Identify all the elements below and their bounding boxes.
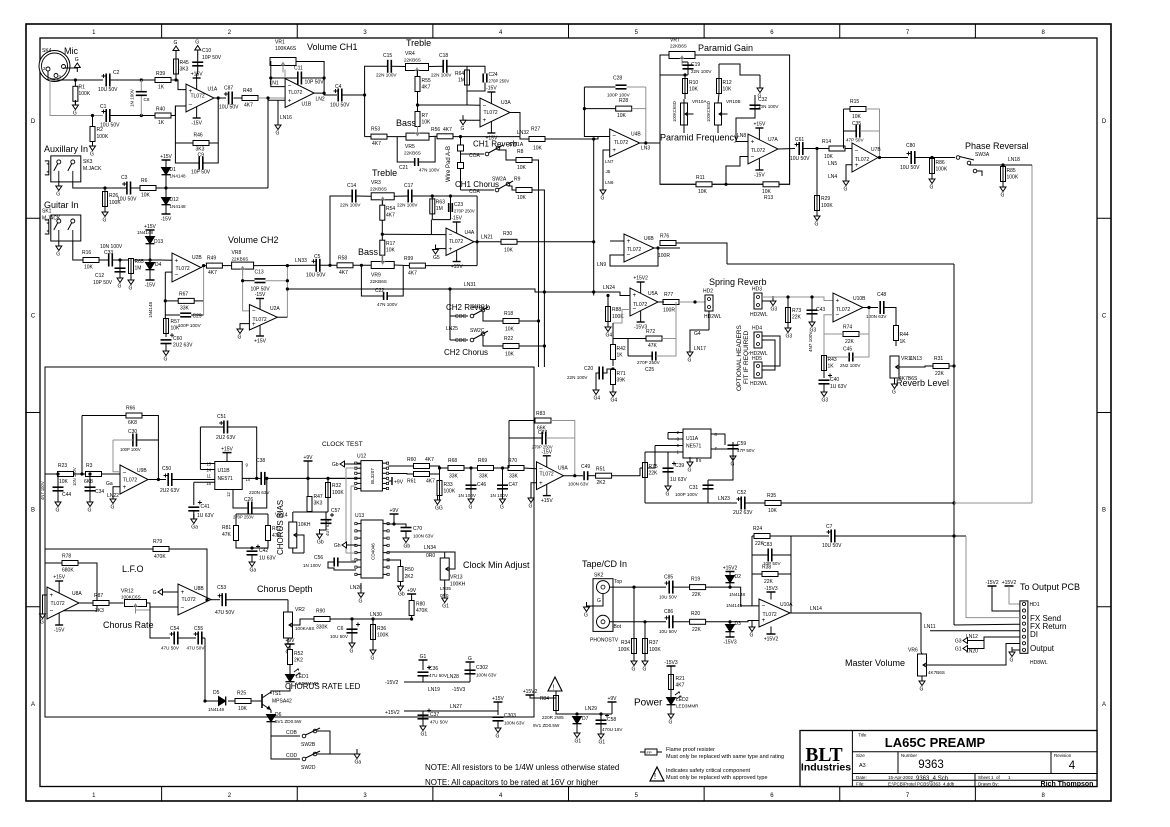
power +15V2 U10A (764, 634, 779, 643)
svg-text:R49: R49 (207, 256, 216, 262)
svg-text:R99: R99 (404, 256, 413, 262)
wire U7B fb right (866, 109, 880, 158)
svg-text:R7: R7 (422, 113, 429, 119)
capacitor C27 (532, 430, 553, 450)
wire U4B R28 r (632, 108, 646, 110)
svg-text:NE571: NE571 (218, 476, 234, 482)
svg-text:G: G (643, 667, 647, 673)
wire U10B minus loop (824, 315, 843, 334)
node d7 n (575, 712, 578, 715)
wire R57 leads (164, 319, 167, 338)
power -15V below D4 (145, 280, 156, 289)
ground G U4B (600, 185, 606, 202)
svg-text:HD5: HD5 (752, 356, 762, 362)
svg-text:G: G (892, 390, 896, 396)
svg-text:SW2C: SW2C (470, 328, 485, 334)
svg-text:R18: R18 (504, 311, 513, 317)
svg-text:C32: C32 (758, 97, 767, 103)
resistor R1 (73, 85, 91, 102)
svg-text:0R0: 0R0 (426, 553, 435, 559)
capacitor C40 (819, 374, 848, 391)
wire R71 bot (612, 385, 614, 393)
svg-text:G: G (40, 620, 44, 626)
svg-text:PHONOSTV: PHONOSTV (590, 638, 619, 644)
svg-text:2N2 100V: 2N2 100V (840, 363, 861, 368)
wire R60 out (430, 466, 449, 468)
label Paramid Gain (698, 43, 753, 53)
svg-text:1N 100V: 1N 100V (303, 563, 322, 568)
svg-text:3K3: 3K3 (314, 501, 323, 507)
svg-text:100K: 100K (618, 647, 630, 653)
svg-text:U9A: U9A (558, 466, 568, 472)
svg-text:Treble: Treble (406, 38, 431, 48)
switch SW3A (956, 152, 990, 165)
svg-text:NOTE: All capacitors to be rat: NOTE: All capacitors to be rated at 16V … (425, 778, 599, 787)
capacitor C48 (866, 292, 887, 319)
resistor R77 (663, 292, 679, 314)
svg-text:C50: C50 (162, 466, 171, 472)
svg-text:MPSA42: MPSA42 (272, 699, 292, 705)
svg-text:Gb: Gb (332, 462, 339, 468)
svg-text:−: − (855, 147, 859, 154)
wire C47 leads (502, 468, 504, 499)
svg-text:R80: R80 (416, 602, 425, 608)
resistor R51 (596, 467, 612, 487)
wire tone1 bass branch (364, 95, 366, 137)
svg-text:1N4148: 1N4148 (726, 603, 743, 608)
wire C54-C55 (178, 637, 196, 639)
svg-text:TL072: TL072 (751, 148, 765, 154)
svg-text:R56 4K7: R56 4K7 (431, 127, 452, 133)
svg-text:-15V: -15V (54, 628, 65, 634)
wire R51 out (612, 468, 640, 476)
resistor R27 (529, 127, 545, 152)
svg-text:−: − (252, 308, 256, 315)
svg-text:22KB6S: 22KB6S (370, 187, 387, 192)
wire R47 bot (309, 511, 311, 514)
header HD3 (750, 287, 768, 319)
wire D5 to R25 (228, 700, 235, 702)
svg-text:LN1: LN1 (270, 81, 279, 87)
svg-text:1N4148: 1N4148 (148, 301, 153, 318)
ground G SK1 (56, 241, 62, 258)
wire R85 leads (1002, 165, 1004, 187)
ground Gb below C57 (317, 529, 324, 546)
wire servo right C29 (191, 314, 203, 316)
svg-text:DI: DI (1030, 630, 1038, 639)
power -15V2 hdr (985, 580, 999, 586)
resistor R40 (155, 107, 171, 127)
power +15V above D13 (144, 224, 156, 230)
svg-text:G1: G1 (421, 732, 428, 738)
svg-text:C60: C60 (173, 336, 182, 342)
wire U5A out to R77 (658, 301, 664, 303)
capacitor C60 (161, 333, 194, 348)
op-amp U9A (537, 449, 569, 504)
node u8b out n (205, 598, 208, 601)
label Phase Reversal (965, 141, 1029, 151)
svg-text:C39: C39 (675, 463, 684, 469)
svg-text:R48: R48 (243, 88, 252, 94)
node tone2 feed (328, 264, 331, 267)
wire R10 leads (684, 75, 686, 99)
svg-text:R52: R52 (294, 651, 303, 657)
wire SW2B out (317, 731, 330, 754)
svg-text:+15V2: +15V2 (633, 276, 648, 282)
diode LED1 (286, 669, 320, 686)
resistor R75 (643, 463, 659, 478)
node c34 node (88, 472, 91, 475)
svg-text:+15V: +15V (492, 696, 504, 702)
ground G below LN26 (358, 588, 364, 605)
svg-text:R9: R9 (514, 177, 521, 183)
svg-text:+: + (751, 139, 755, 146)
wire VR6 bot (921, 676, 923, 681)
svg-text:22N 100V: 22N 100V (376, 73, 397, 78)
diode D3 (726, 603, 743, 632)
svg-text:−: − (751, 154, 755, 161)
svg-text:Paramid Frequency: Paramid Frequency (660, 133, 739, 143)
potentiometer VR10B (706, 99, 741, 125)
wire C30 right (137, 439, 159, 441)
wire U7A minus loop (726, 157, 748, 185)
resistor R47 (307, 494, 323, 512)
svg-text:VR3: VR3 (371, 180, 381, 186)
wire R70 to U9A (524, 467, 537, 470)
resistor R63 (430, 199, 445, 214)
potentiometer VR2 (284, 607, 315, 638)
svg-text:R72: R72 (646, 329, 655, 335)
svg-text:10K: 10K (852, 114, 862, 120)
switch SW1C (470, 304, 488, 318)
node c23 top (449, 194, 452, 197)
svg-text:270P 250V: 270P 250V (489, 79, 510, 84)
box paramid section (660, 55, 790, 184)
switch SW2D (301, 751, 320, 771)
svg-text:G: G (359, 599, 363, 605)
svg-text:TL072: TL072 (763, 612, 777, 618)
capacitor C35 (846, 121, 864, 143)
wire R32 leads (327, 478, 329, 512)
resistor R16 (82, 250, 99, 271)
svg-text:Auxillary In: Auxillary In (44, 144, 88, 154)
svg-text:R54: R54 (386, 206, 395, 212)
wire C22 loop (361, 265, 383, 296)
resistor R50 (398, 567, 414, 582)
svg-text:G: G (669, 720, 673, 726)
wire servo right vert (203, 266, 205, 315)
node u2a ln31 n (286, 287, 289, 290)
svg-text:C57: C57 (331, 508, 340, 514)
svg-text:100K: 100K (332, 490, 344, 496)
resistor R82 (266, 526, 282, 541)
ground G below C59 (730, 451, 736, 468)
wire U11A pin5 gnd (696, 458, 698, 462)
node u9b out n (157, 478, 160, 481)
wire VR12 right (147, 603, 179, 607)
svg-text:R81: R81 (222, 525, 231, 531)
power +15V2 D2 (723, 566, 738, 572)
svg-text:22K: 22K (845, 339, 855, 345)
svg-text:Chorus Rate: Chorus Rate (103, 620, 154, 630)
svg-text:C83: C83 (763, 542, 772, 548)
ground G below R86 (929, 174, 935, 191)
svg-text:R25: R25 (237, 691, 246, 697)
potentiometer VR4 (404, 51, 429, 78)
potentiometer VR6 (908, 648, 945, 677)
svg-text:100P 100V: 100P 100V (607, 93, 631, 98)
wire clock test wire (349, 463, 361, 465)
wire U6B fb loop (610, 248, 658, 266)
label 0R0 b (440, 593, 449, 598)
wire rfb right (859, 308, 869, 335)
label To Output PCB (1020, 582, 1080, 592)
svg-text:G: G (529, 504, 533, 510)
svg-text:10K: 10K (824, 154, 834, 160)
wire VR14 top (292, 512, 294, 522)
node d5 n (203, 699, 206, 702)
wire D4 leads (149, 260, 151, 280)
resistor R72 (646, 329, 662, 349)
svg-text:LN3: LN3 (641, 146, 650, 152)
svg-text:10U 50V: 10U 50V (98, 87, 118, 93)
svg-text:100K: 100K (377, 633, 389, 639)
svg-text:10K: 10K (386, 248, 396, 254)
svg-text:47U 50V: 47U 50V (429, 673, 448, 678)
svg-text:U5A: U5A (648, 291, 658, 297)
wire COC2 wire (450, 339, 468, 341)
wire R66 fb leftv (81, 416, 83, 475)
ground G below C34 (87, 497, 93, 514)
wire R33 leads (439, 468, 441, 500)
wire VR6 wiper wire (928, 644, 1020, 666)
svg-text:R64: R64 (455, 71, 464, 77)
wire U8A out (79, 602, 93, 604)
svg-text:2K2: 2K2 (294, 658, 303, 664)
resistor R65 (129, 259, 144, 274)
label LN6 (605, 180, 614, 185)
wire C39 leads (667, 452, 669, 486)
svg-text:C59: C59 (737, 441, 746, 447)
wire C18 out (447, 65, 467, 67)
svg-text:-15V: -15V (451, 216, 462, 222)
capacitor C52 (733, 490, 753, 516)
label LN32 (517, 130, 529, 136)
wire C303 stub (497, 702, 499, 715)
svg-text:-15V3: -15V3 (723, 640, 737, 646)
svg-text:G: G (73, 111, 77, 117)
op-amp U2B (172, 253, 202, 282)
svg-text:+9V: +9V (407, 588, 417, 594)
wire R82 top (267, 514, 269, 526)
svg-text:+: + (539, 480, 543, 487)
svg-text:−: − (181, 604, 185, 611)
svg-text:LN27: LN27 (450, 704, 462, 710)
wire R27 right to mix (545, 138, 594, 140)
wire R39 to U1A plus (171, 80, 186, 90)
wire U11A in wire (640, 446, 655, 469)
svg-text:6K8: 6K8 (84, 479, 93, 485)
svg-text:−: − (836, 312, 840, 319)
wire U11B pin14 stub (200, 469, 214, 471)
node LN24 mix (592, 290, 595, 293)
node ch mix node (592, 137, 595, 140)
potentiometer VR8 (232, 250, 254, 276)
capacitor C8 (130, 80, 150, 116)
node LN23 right n (952, 501, 955, 504)
label 9V1 ZD05W (533, 723, 560, 728)
svg-text:15-Apr-2002: 15-Apr-2002 (888, 775, 914, 780)
svg-text:U7A: U7A (768, 137, 778, 143)
wire U2B output (201, 266, 207, 268)
svg-text:16: 16 (206, 481, 211, 486)
label Spring Reverb (709, 277, 767, 287)
wire U1A feedback R46 left (175, 142, 193, 144)
switch SW2B (301, 728, 320, 748)
svg-text:10U 50V: 10U 50V (306, 273, 326, 279)
potentiometer VR7 (669, 38, 695, 66)
svg-text:10U 50V: 10U 50V (117, 197, 137, 203)
svg-text:-15V3: -15V3 (664, 660, 678, 666)
wire R37 leads (644, 622, 646, 660)
svg-text:R33: R33 (444, 482, 453, 488)
svg-text:10U 50V: 10U 50V (100, 123, 120, 129)
node fb right C11 (323, 76, 326, 79)
wire VR1 right rail (296, 62, 324, 94)
title block border (800, 731, 1097, 787)
svg-text:33K: 33K (180, 306, 190, 312)
svg-text:C52: C52 (737, 490, 746, 496)
svg-text:LED3MMR: LED3MMR (676, 704, 699, 709)
capacitor C9 (191, 153, 211, 176)
svg-text:GG: GG (435, 506, 443, 512)
label LN16 (280, 115, 292, 121)
resistor R86 (930, 159, 948, 174)
wire SK1 to R16 (73, 241, 83, 260)
capacitor C46 (458, 482, 486, 498)
potentiometer VR14 (275, 513, 311, 549)
power +15V C303 (492, 696, 504, 702)
wire C70 bot (405, 532, 407, 539)
svg-text:R85: R85 (1007, 168, 1016, 174)
capacitor C15 (376, 53, 397, 78)
resistor R11 (696, 175, 712, 195)
svg-text:10U 50V: 10U 50V (659, 595, 678, 600)
diode D12 (162, 197, 187, 209)
svg-text:C3: C3 (121, 175, 128, 181)
resistor R20 (690, 611, 706, 633)
svg-text:1N 100V: 1N 100V (130, 88, 135, 107)
wire C36 bot (422, 676, 424, 682)
svg-text:G: G (111, 505, 115, 511)
wire SW2C to R22 (483, 336, 503, 346)
label LN7 (605, 159, 614, 164)
label pin12 (226, 492, 231, 497)
svg-text:22N 100V: 22N 100V (567, 375, 588, 380)
svg-text:C26: C26 (244, 497, 253, 503)
ground G1 below C37 (420, 721, 427, 738)
wire C46 leads (470, 468, 472, 499)
svg-text:100P 100V: 100P 100V (178, 323, 202, 328)
label LN8 (737, 133, 746, 139)
svg-text:R43: R43 (828, 357, 837, 363)
svg-text:D4: D4 (155, 262, 162, 268)
svg-text:Date:: Date: (856, 775, 867, 780)
power -15V3 D3 (723, 637, 737, 646)
resistor R81 (222, 525, 239, 541)
resistor R84 (540, 696, 559, 711)
svg-text:R84: R84 (540, 696, 549, 702)
wire hdr pin8 gnd (1012, 650, 1020, 652)
wire C85 to R19 (673, 586, 690, 588)
wire SK2 bot out (610, 621, 667, 623)
svg-text:+: + (762, 617, 766, 624)
svg-text:TL072: TL072 (176, 266, 190, 272)
svg-text:Spring Reverb: Spring Reverb (709, 277, 767, 287)
svg-text:VR8: VR8 (232, 250, 242, 256)
svg-text:G: G (1010, 658, 1014, 664)
svg-text:U8A: U8A (72, 591, 82, 597)
capacitor C10 (192, 48, 222, 66)
node R77 n (693, 300, 696, 303)
label Ga U9B (106, 481, 113, 487)
wire C11 right (301, 77, 324, 79)
ground G mic (74, 57, 80, 72)
wire U12 bus v2 (350, 486, 352, 561)
svg-text:-15V3: -15V3 (764, 586, 778, 592)
svg-text:D5: D5 (213, 690, 220, 696)
ground G below C44 (55, 497, 61, 514)
svg-text:R29: R29 (821, 196, 830, 202)
svg-text:+: + (836, 297, 840, 304)
capacitor C37 (418, 709, 449, 725)
svg-text:CD4046: CD4046 (371, 543, 376, 560)
wire U7A plus in (736, 118, 748, 142)
svg-text:U10A: U10A (780, 602, 793, 608)
svg-text:2U2 63V: 2U2 63V (733, 510, 753, 516)
svg-text:G: G (1001, 193, 1005, 199)
diode D7 (573, 716, 589, 724)
label OPTIONAL HEADERS (736, 324, 743, 391)
wire rev fb C25l (627, 339, 629, 357)
node U1B out node (323, 92, 326, 95)
wire SK2 top out (610, 586, 667, 588)
wire HD2 down (708, 311, 710, 330)
wire VR11 bot (894, 378, 896, 384)
wire u10a fb r38 (752, 573, 762, 575)
op-amp U5A (630, 276, 658, 331)
svg-text:10U 50V: 10U 50V (330, 103, 350, 109)
label CH2 Reverb (446, 303, 491, 312)
svg-text:R14: R14 (822, 139, 831, 145)
svg-text:C15: C15 (383, 53, 392, 59)
svg-text:R47: R47 (314, 494, 323, 500)
transistor TS1 (262, 691, 292, 710)
wire SW2A to R9 (508, 186, 516, 190)
wire C53 out (226, 599, 288, 601)
svg-text:C29: C29 (193, 314, 202, 320)
svg-text:!: ! (553, 685, 555, 692)
resistor R73 (786, 308, 802, 323)
wire paramid top wires2 (695, 54, 790, 56)
wire C44 leads (57, 474, 59, 502)
wire C38 out (265, 477, 361, 479)
node r80 n (410, 617, 413, 620)
wire R77 to HD2 (679, 301, 705, 303)
resistor R9 (514, 177, 532, 202)
svg-text:1M: 1M (436, 206, 443, 212)
svg-text:LN23: LN23 (718, 496, 730, 502)
